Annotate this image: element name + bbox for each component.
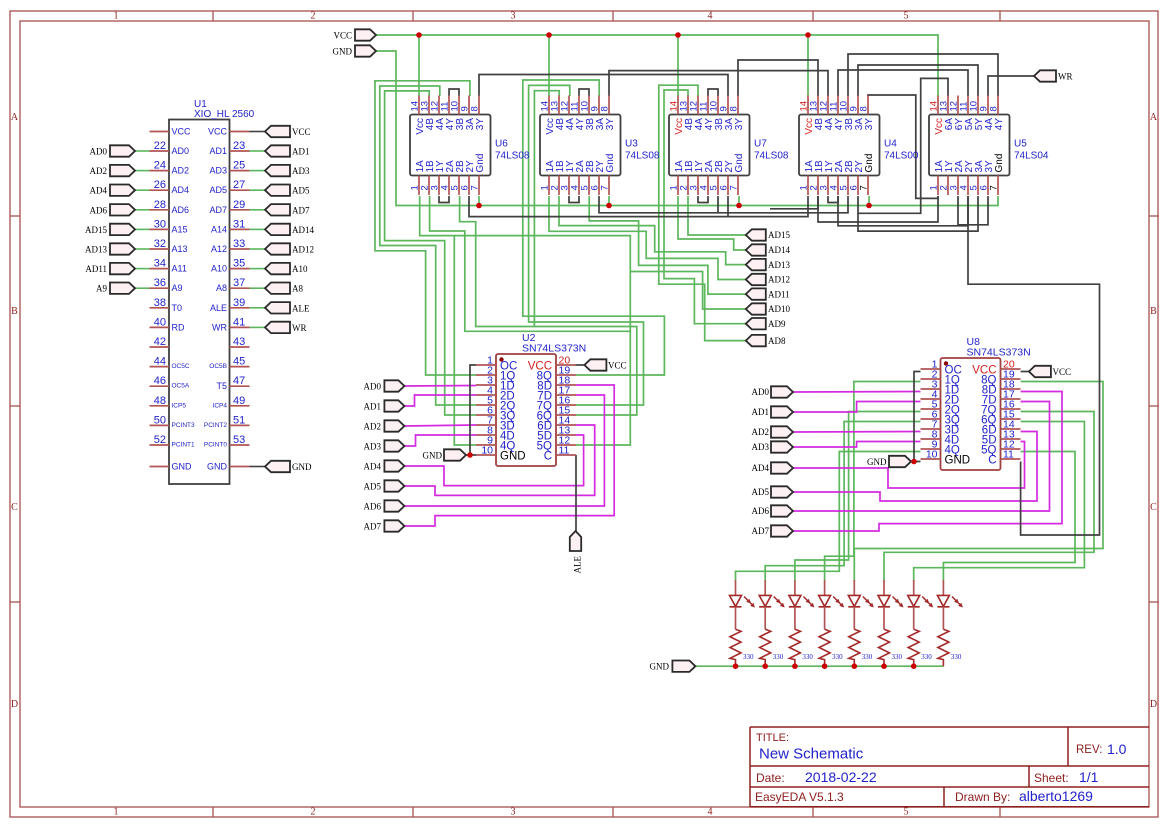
svg-text:U4: U4 [884, 139, 897, 150]
svg-text:3Y: 3Y [734, 118, 745, 131]
svg-text:26: 26 [154, 179, 166, 191]
svg-text:U5: U5 [1014, 139, 1027, 150]
svg-text:46: 46 [154, 375, 166, 387]
svg-text:3Y: 3Y [605, 118, 616, 131]
svg-text:AD0: AD0 [172, 146, 190, 156]
svg-text:C: C [11, 502, 18, 513]
svg-text:AD13: AD13 [85, 245, 107, 255]
svg-text:EasyEDA V5.1.3: EasyEDA V5.1.3 [755, 790, 844, 804]
svg-text:2: 2 [311, 11, 316, 22]
svg-text:T5: T5 [216, 381, 227, 391]
svg-text:39: 39 [233, 297, 245, 309]
svg-text:A13: A13 [172, 244, 188, 254]
svg-text:8: 8 [729, 106, 740, 111]
svg-text:52: 52 [154, 434, 166, 446]
svg-text:AD1: AD1 [752, 407, 770, 417]
svg-text:SN74LS373N: SN74LS373N [967, 347, 1031, 359]
svg-text:REV:: REV: [1076, 744, 1102, 756]
svg-text:40: 40 [154, 316, 166, 328]
svg-text:74LS08: 74LS08 [625, 151, 660, 162]
svg-text:alberto1269: alberto1269 [1019, 788, 1093, 804]
svg-text:AD10: AD10 [768, 304, 790, 314]
svg-text:AD7: AD7 [752, 526, 770, 536]
svg-text:Gnd: Gnd [605, 154, 616, 173]
svg-text:AD13: AD13 [768, 260, 790, 270]
svg-text:30: 30 [154, 218, 166, 230]
svg-text:B: B [1150, 306, 1157, 317]
svg-text:U6: U6 [495, 139, 508, 150]
svg-text:A14: A14 [211, 224, 227, 234]
svg-text:330: 330 [832, 653, 843, 661]
svg-text:41: 41 [233, 316, 245, 328]
svg-text:AD12: AD12 [768, 275, 790, 285]
svg-text:AD3: AD3 [209, 166, 227, 176]
svg-text:AD3: AD3 [364, 442, 382, 452]
svg-text:2018-02-22: 2018-02-22 [805, 769, 877, 785]
svg-text:AD6: AD6 [364, 502, 382, 512]
svg-text:A10: A10 [292, 264, 308, 274]
svg-text:7: 7 [729, 185, 740, 190]
svg-text:VCC: VCC [208, 127, 228, 137]
svg-text:Gnd: Gnd [475, 154, 486, 173]
svg-text:AD5: AD5 [209, 185, 227, 195]
svg-text:330: 330 [802, 653, 813, 661]
svg-text:10: 10 [926, 449, 938, 461]
svg-text:51: 51 [233, 414, 245, 426]
svg-text:33: 33 [233, 238, 245, 250]
svg-text:GND: GND [172, 462, 193, 472]
svg-text:37: 37 [233, 277, 245, 289]
svg-text:1: 1 [114, 11, 119, 22]
svg-text:11: 11 [1003, 449, 1014, 461]
svg-text:ICP4: ICP4 [213, 402, 228, 409]
svg-text:10: 10 [481, 445, 493, 457]
svg-text:TITLE:: TITLE: [756, 732, 789, 744]
svg-text:WR: WR [212, 322, 227, 332]
svg-text:1/1: 1/1 [1079, 769, 1099, 785]
svg-text:XIO_HL 2560: XIO_HL 2560 [194, 109, 255, 120]
svg-text:5: 5 [904, 807, 909, 818]
svg-text:4Y: 4Y [994, 118, 1005, 131]
svg-text:3: 3 [511, 11, 516, 22]
svg-text:38: 38 [154, 297, 166, 309]
svg-text:OC5A: OC5A [172, 383, 190, 390]
svg-text:AD0: AD0 [364, 382, 382, 392]
svg-text:B: B [11, 306, 18, 317]
svg-text:AD6: AD6 [752, 506, 770, 516]
svg-text:AD9: AD9 [768, 319, 786, 329]
svg-text:330: 330 [892, 653, 903, 661]
svg-text:AD4: AD4 [172, 185, 190, 195]
svg-text:3Y: 3Y [475, 118, 486, 131]
svg-text:C: C [988, 455, 996, 467]
svg-text:GND: GND [333, 47, 353, 57]
svg-text:AD2: AD2 [752, 427, 770, 437]
svg-text:AD1: AD1 [364, 402, 382, 412]
svg-text:AD3: AD3 [752, 442, 770, 452]
svg-text:ALE: ALE [292, 303, 310, 313]
svg-text:4: 4 [708, 807, 713, 818]
svg-text:D: D [1150, 699, 1157, 710]
svg-text:New Schematic: New Schematic [759, 746, 864, 763]
svg-text:8: 8 [989, 106, 1000, 111]
svg-text:AD0: AD0 [752, 387, 770, 397]
svg-text:AD15: AD15 [85, 225, 107, 235]
svg-text:ICP5: ICP5 [172, 402, 187, 409]
svg-text:GND: GND [292, 462, 312, 472]
svg-text:8: 8 [470, 106, 481, 111]
svg-text:31: 31 [233, 218, 245, 230]
svg-text:48: 48 [154, 395, 166, 407]
svg-text:Sheet:: Sheet: [1034, 771, 1069, 785]
svg-text:ALE: ALE [573, 556, 583, 574]
svg-text:AD4: AD4 [364, 462, 382, 472]
svg-text:T0: T0 [172, 303, 183, 313]
svg-text:Date:: Date: [756, 771, 785, 785]
svg-text:AD6: AD6 [90, 205, 108, 215]
svg-text:A: A [11, 112, 19, 123]
svg-text:AD11: AD11 [768, 289, 790, 299]
svg-text:AD7: AD7 [292, 205, 310, 215]
svg-text:44: 44 [154, 356, 166, 368]
svg-text:GND: GND [423, 451, 443, 461]
svg-text:Gnd: Gnd [734, 154, 745, 173]
svg-text:330: 330 [743, 653, 754, 661]
svg-text:AD7: AD7 [209, 205, 227, 215]
svg-text:AD4: AD4 [90, 186, 108, 196]
svg-text:AD5: AD5 [292, 186, 310, 196]
svg-text:A8: A8 [292, 284, 303, 294]
svg-text:35: 35 [233, 258, 245, 270]
svg-text:WR: WR [1058, 72, 1073, 82]
svg-text:A12: A12 [211, 244, 227, 254]
svg-text:22: 22 [154, 140, 166, 152]
svg-text:VCC: VCC [292, 127, 311, 137]
svg-text:330: 330 [773, 653, 784, 661]
svg-text:53: 53 [233, 434, 245, 446]
svg-text:74LS00: 74LS00 [884, 151, 919, 162]
svg-text:5: 5 [904, 11, 909, 22]
svg-text:74LS04: 74LS04 [1014, 151, 1049, 162]
svg-text:A15: A15 [172, 224, 188, 234]
svg-text:A10: A10 [211, 264, 227, 274]
svg-text:8: 8 [600, 106, 611, 111]
svg-text:27: 27 [233, 179, 245, 191]
svg-text:47: 47 [233, 375, 245, 387]
svg-text:28: 28 [154, 199, 166, 211]
svg-text:PCINT3: PCINT3 [172, 422, 196, 429]
svg-text:PCINT2: PCINT2 [204, 422, 228, 429]
svg-text:RD: RD [172, 322, 185, 332]
svg-text:AD12: AD12 [292, 245, 314, 255]
svg-text:A: A [1150, 112, 1158, 123]
svg-text:WR: WR [292, 323, 307, 333]
svg-text:74LS08: 74LS08 [495, 151, 530, 162]
svg-text:36: 36 [154, 277, 166, 289]
svg-text:3: 3 [511, 807, 516, 818]
svg-text:AD4: AD4 [752, 463, 770, 473]
svg-text:VCC: VCC [333, 31, 352, 41]
svg-text:A8: A8 [216, 283, 227, 293]
svg-text:A9: A9 [96, 284, 107, 294]
svg-text:11: 11 [559, 445, 570, 457]
svg-text:32: 32 [154, 238, 166, 250]
svg-text:AD5: AD5 [752, 487, 770, 497]
svg-text:330: 330 [862, 653, 873, 661]
svg-text:AD1: AD1 [292, 147, 310, 157]
svg-text:D: D [11, 699, 18, 710]
svg-text:AD6: AD6 [172, 205, 190, 215]
svg-text:50: 50 [154, 414, 166, 426]
svg-text:Gnd: Gnd [994, 154, 1005, 173]
svg-text:C: C [544, 451, 552, 463]
svg-text:OC5C: OC5C [172, 363, 190, 370]
svg-text:AD2: AD2 [172, 166, 190, 176]
svg-text:Gnd: Gnd [864, 154, 875, 173]
svg-text:U3: U3 [625, 139, 638, 150]
svg-text:Drawn By:: Drawn By: [955, 790, 1010, 804]
svg-text:45: 45 [233, 356, 245, 368]
svg-text:AD2: AD2 [90, 166, 108, 176]
svg-text:74LS08: 74LS08 [754, 151, 789, 162]
svg-text:AD11: AD11 [85, 264, 107, 274]
svg-text:GND: GND [650, 662, 670, 672]
svg-text:AD8: AD8 [768, 336, 786, 346]
svg-text:ALE: ALE [210, 303, 227, 313]
svg-text:PCINT1: PCINT1 [172, 442, 196, 449]
svg-text:VCC: VCC [1053, 367, 1072, 377]
svg-text:GND: GND [945, 455, 971, 467]
svg-text:AD14: AD14 [292, 225, 314, 235]
svg-text:AD2: AD2 [364, 422, 382, 432]
svg-text:C: C [1150, 502, 1157, 513]
svg-text:8: 8 [859, 106, 870, 111]
svg-text:42: 42 [154, 336, 166, 348]
svg-text:330: 330 [951, 653, 962, 661]
svg-text:GND: GND [500, 451, 526, 463]
svg-text:A11: A11 [172, 264, 187, 274]
svg-text:2: 2 [311, 807, 316, 818]
svg-text:GND: GND [867, 457, 887, 467]
svg-text:AD3: AD3 [292, 166, 310, 176]
svg-text:34: 34 [154, 258, 166, 270]
svg-text:OC5B: OC5B [209, 363, 227, 370]
svg-text:GND: GND [207, 462, 228, 472]
svg-text:49: 49 [233, 395, 245, 407]
svg-text:AD0: AD0 [90, 147, 108, 157]
svg-text:AD15: AD15 [768, 230, 790, 240]
svg-text:1.0: 1.0 [1107, 741, 1127, 757]
svg-text:23: 23 [233, 140, 245, 152]
svg-text:A9: A9 [172, 283, 183, 293]
svg-text:U7: U7 [754, 139, 767, 150]
svg-text:4: 4 [708, 11, 713, 22]
svg-text:PCINT0: PCINT0 [204, 442, 228, 449]
svg-text:1: 1 [114, 807, 119, 818]
svg-text:VCC: VCC [172, 127, 192, 137]
svg-text:43: 43 [233, 336, 245, 348]
svg-text:VCC: VCC [608, 361, 627, 371]
svg-text:AD7: AD7 [364, 522, 382, 532]
svg-text:7: 7 [470, 185, 481, 190]
svg-text:AD1: AD1 [209, 146, 227, 156]
svg-text:24: 24 [154, 160, 166, 172]
svg-text:AD14: AD14 [768, 245, 790, 255]
svg-text:7: 7 [989, 185, 1000, 190]
svg-text:7: 7 [600, 185, 611, 190]
svg-text:29: 29 [233, 199, 245, 211]
svg-text:SN74LS373N: SN74LS373N [522, 343, 586, 355]
svg-text:25: 25 [233, 160, 245, 172]
svg-text:AD5: AD5 [364, 482, 382, 492]
svg-text:3Y: 3Y [864, 118, 875, 131]
svg-text:330: 330 [921, 653, 932, 661]
svg-text:7: 7 [859, 185, 870, 190]
